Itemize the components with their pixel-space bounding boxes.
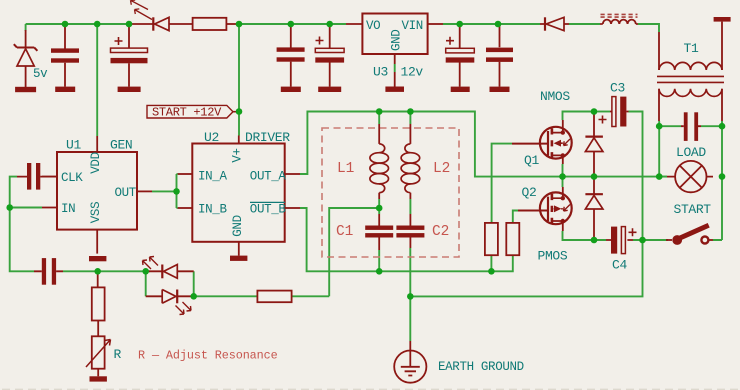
wire: zener top stub xyxy=(25,24,27,31)
lamp LOAD xyxy=(667,161,713,192)
wire: left gate resistor bottom stub xyxy=(490,255,492,271)
wire: U2 OUT_A riser, tank top rail, drop to mid rail xyxy=(300,112,667,177)
wire: C3 right down to earth rail xyxy=(410,112,642,297)
node mid rail / secondary drop xyxy=(656,173,663,180)
node 12v rail / bulk cap xyxy=(326,21,333,28)
value 5v xyxy=(33,67,48,81)
node earth ground tap xyxy=(407,293,414,300)
reference C4 xyxy=(612,258,627,273)
wire: diode to filter inductor xyxy=(569,23,600,25)
pin GND (U2) xyxy=(231,215,245,255)
label NMOS xyxy=(540,89,570,104)
svg-text:VDD: VDD xyxy=(89,152,103,173)
resistor R2 (divider top) xyxy=(92,273,105,336)
capacitor C1 (tank) xyxy=(365,214,393,250)
ground (zener) xyxy=(15,87,36,92)
pin CLK (U1) xyxy=(42,171,83,185)
node lamp right / right vertical xyxy=(719,173,726,180)
svg-text:12v: 12v xyxy=(401,65,424,80)
wire: bottom cap to LED pair xyxy=(63,270,150,272)
pin VDD (U1) xyxy=(89,136,103,174)
capacitor (12v rail filter) xyxy=(277,24,305,87)
label C2 xyxy=(432,224,449,240)
svg-text:START +12V: START +12V xyxy=(152,106,222,120)
wire: C3 node to left plate xyxy=(594,111,610,113)
inductor L2 xyxy=(401,124,420,199)
wire: Q1 drain jog to C3 node xyxy=(563,112,595,121)
decorative bottom edge artifact xyxy=(2,388,740,390)
node U1 OUT split xyxy=(173,188,180,195)
zener diode D5 5v xyxy=(14,30,38,87)
svg-text:C2: C2 xyxy=(432,224,449,240)
earth ground symbol xyxy=(394,341,426,383)
value 12v xyxy=(401,65,424,80)
node: primary open terminal bar xyxy=(714,17,731,22)
node U1 IN tap xyxy=(6,204,13,211)
ground (U3) xyxy=(385,72,404,92)
pin VSS (U1) xyxy=(89,202,103,254)
svg-text:Q2: Q2 xyxy=(522,185,537,200)
svg-text:GND: GND xyxy=(390,30,404,51)
wire: U1 OUT to U2 inputs xyxy=(152,174,178,208)
reference U3 xyxy=(373,65,388,80)
node VIN rail / bulk cap xyxy=(456,21,463,28)
wire: Q2 source to C4 xyxy=(563,231,607,240)
capacitor (secondary resonant) xyxy=(681,112,701,141)
node 12v rail / filter cap xyxy=(288,21,295,28)
node Q2 source / D7 / C4 xyxy=(591,237,598,244)
capacitor (CLK coupling) C5 xyxy=(17,163,57,190)
wire: left column CLK cap to bottom cap xyxy=(10,177,34,272)
svg-text:START: START xyxy=(674,202,712,217)
reference Q1 xyxy=(524,153,539,168)
LED D3 (feedback pair lower, anode left) xyxy=(146,290,194,315)
node START+12V label tap xyxy=(236,108,243,115)
ground (12v filter cap) xyxy=(281,87,301,92)
pin OUT_A (U2) xyxy=(250,170,300,184)
wire: C2 bottom to earth ground xyxy=(409,248,411,341)
node gate rail / C1 bottom xyxy=(376,268,383,275)
text R - Adjust Resonance xyxy=(138,348,278,362)
svg-text:OUT_A: OUT_A xyxy=(250,170,287,184)
wire: secondary cap right xyxy=(701,125,722,127)
wire: U3 VIN to diode xyxy=(443,23,540,25)
wire: U1 IN wire xyxy=(10,207,42,209)
label C1 xyxy=(336,224,353,240)
driver IC U2 DRIVER box xyxy=(192,144,284,242)
pin OUT_B (U2, active low overline) xyxy=(250,202,300,216)
pin VIN (U3) xyxy=(402,19,444,33)
node 12v rail / START riser xyxy=(236,21,243,28)
polarized capacitor (VIN bulk) xyxy=(446,24,475,87)
svg-text:U1: U1 xyxy=(66,138,81,153)
wire: 5v rail top-left xyxy=(26,23,131,25)
capacitor (VIN filter) xyxy=(486,24,513,87)
svg-text:EARTH GROUND: EARTH GROUND xyxy=(438,360,524,374)
node LED pair left xyxy=(142,268,149,275)
svg-text:VO: VO xyxy=(366,19,380,33)
wire: secondary cap left xyxy=(659,125,681,127)
node C4 right / earth vertical xyxy=(639,237,646,244)
svg-text:IN_B: IN_B xyxy=(198,203,227,217)
svg-text:V+: V+ xyxy=(231,148,245,162)
diode D6 (across Q1) xyxy=(585,113,603,174)
pin IN (U1) xyxy=(42,202,75,216)
wire: feedback tap to L1/C1 node xyxy=(329,208,379,296)
wire: U3 GND stub xyxy=(394,64,396,72)
svg-text:VSS: VSS xyxy=(89,202,103,223)
reference Q2 xyxy=(522,185,537,200)
pin IN_B (U2) xyxy=(178,203,228,217)
label L2 xyxy=(433,161,450,177)
wire: LED pair left leg xyxy=(145,271,147,296)
wire: Q1 source stub xyxy=(562,164,564,177)
LED D1 power indicator xyxy=(131,0,193,31)
svg-text:C1: C1 xyxy=(336,224,353,240)
svg-text:OUT_B: OUT_B xyxy=(250,203,287,217)
wire: C1 bottom stub xyxy=(378,250,380,271)
svg-text:R — Adjust Resonance: R — Adjust Resonance xyxy=(138,348,278,362)
node 5v rail / VDD xyxy=(94,21,101,28)
wire: U2 V+ riser with START+12V tap xyxy=(238,24,240,136)
node tank rail / L2 xyxy=(407,108,414,115)
resistor R1 (LED series) xyxy=(193,18,236,30)
regulator U3 box xyxy=(362,14,427,55)
inductor FB1 (input filter, ferrite core) xyxy=(600,14,638,24)
svg-text:C4: C4 xyxy=(612,258,627,273)
pin GND (U3) xyxy=(390,30,404,64)
svg-text:DRIVER: DRIVER xyxy=(245,130,290,145)
resistor R variable (adjust resonance) xyxy=(86,336,111,376)
switch SW1 START xyxy=(666,225,713,245)
resistor R5 (Q2 gate) xyxy=(506,223,519,255)
ground (U1 VSS) xyxy=(89,256,106,261)
pin VO (U3) xyxy=(346,19,380,33)
resistor R3 (feedback series) xyxy=(257,291,291,303)
svg-text:Q1: Q1 xyxy=(524,153,539,168)
svg-text:PMOS: PMOS xyxy=(538,249,568,264)
wire: L1 to C1 link xyxy=(378,199,380,214)
ground (VIN bulk cap) xyxy=(451,87,470,92)
ground (U2 GND) xyxy=(230,256,247,261)
wire: L1 top stub xyxy=(378,112,380,125)
node L1/C1 junction xyxy=(376,205,383,212)
capacitor (IN feedback) C6 xyxy=(34,258,63,285)
node mid rail / Q1 source xyxy=(559,173,566,180)
svg-text:OUT: OUT xyxy=(115,186,137,200)
ground (variable resistor) xyxy=(90,376,107,381)
wire: C4 right to switch xyxy=(633,239,668,241)
wire: right vertical T1 secondary to switch xyxy=(713,121,722,240)
transistor Q1 NMOS xyxy=(512,120,572,164)
svg-text:T1: T1 xyxy=(684,41,699,56)
svg-text:GND: GND xyxy=(231,215,245,236)
reference C3 xyxy=(610,81,625,96)
svg-text:CLK: CLK xyxy=(61,171,83,185)
label START xyxy=(674,202,712,217)
global label START +12V xyxy=(147,105,239,119)
svg-text:L2: L2 xyxy=(433,161,450,177)
node tank rail / L1 xyxy=(376,108,383,115)
wire: L2 top stub xyxy=(409,112,411,125)
node Q1 drain / C3 / D6 xyxy=(591,108,598,115)
svg-text:NMOS: NMOS xyxy=(540,89,570,104)
inductor L1 xyxy=(370,124,389,199)
node VIN rail / filter cap xyxy=(495,21,502,28)
polarized capacitor C3 xyxy=(599,97,629,127)
node gate rail / R4 bottom xyxy=(488,268,495,275)
ground (5v bulk cap) xyxy=(118,87,141,92)
polarized capacitor (12v bulk) xyxy=(315,24,344,87)
label LOAD xyxy=(676,145,706,160)
wire: Q1 gate wire and R riser xyxy=(492,144,512,223)
wire: Q2 gate wire and R riser xyxy=(513,211,518,223)
wire: inductor to T1 primary xyxy=(638,24,659,32)
node 5v rail / bulk cap xyxy=(126,21,133,28)
wire: L2 to C2 link xyxy=(409,199,411,214)
reference R (variable resistor) xyxy=(114,347,122,362)
label EARTH GROUND xyxy=(438,360,524,374)
reference U2 xyxy=(204,130,219,145)
svg-text:GEN: GEN xyxy=(110,138,132,153)
ground (VIN filter cap) xyxy=(490,87,510,92)
svg-text:IN_A: IN_A xyxy=(198,170,227,184)
wire: LED pair right leg xyxy=(193,271,195,296)
svg-text:LOAD: LOAD xyxy=(676,145,706,160)
wire: feedback resistor to tap riser xyxy=(292,295,330,297)
label L1 xyxy=(337,161,354,177)
polarized capacitor (5v bulk) xyxy=(111,24,148,87)
node secondary left / cap xyxy=(656,123,663,130)
op-amp U1 GEN oscillator box xyxy=(57,152,137,230)
svg-text:U3: U3 xyxy=(373,65,388,80)
transformer T1 xyxy=(657,22,724,121)
ground (12v bulk cap) xyxy=(318,87,341,92)
wire: U2 OUT_B drop and bottom gate rail xyxy=(300,208,513,271)
diode D7 (across Q2) xyxy=(585,179,603,238)
capacitor (5v rail filter) xyxy=(51,24,79,87)
wire: lamp left stub xyxy=(659,176,667,178)
wire: secondary left terminal drop xyxy=(658,121,660,177)
wire: +12v rail to U3 VO xyxy=(236,23,346,25)
resistor R4 (Q1 gate) xyxy=(485,223,498,255)
svg-text:U2: U2 xyxy=(204,130,219,145)
diode D4 (input series) xyxy=(540,17,569,30)
node LED pair right xyxy=(190,293,197,300)
value GEN xyxy=(110,138,132,153)
pin V+ (U2) xyxy=(231,136,245,163)
svg-text:R: R xyxy=(114,347,122,362)
svg-text:IN: IN xyxy=(61,202,75,216)
wire: LED pair to feedback resistor xyxy=(194,295,258,297)
value DRIVER xyxy=(245,130,290,145)
wire: U1 VDD riser xyxy=(96,24,98,136)
ground (5v filter cap) xyxy=(55,87,75,92)
pin IN_A (U2) xyxy=(178,170,228,184)
LED D2 (feedback pair upper, cathode left) xyxy=(143,257,194,279)
wire: Q2 drain stub xyxy=(562,177,564,187)
transistor Q2 PMOS xyxy=(518,187,572,231)
node 5v rail / filter cap xyxy=(62,21,69,28)
label PMOS xyxy=(538,249,568,264)
node mid rail / diode midpoint xyxy=(591,173,598,180)
pin OUT (U1) xyxy=(115,186,153,200)
reference T1 xyxy=(684,41,699,56)
reference U1 xyxy=(66,138,81,153)
svg-text:L1: L1 xyxy=(337,161,354,177)
node divider / LED tap xyxy=(94,268,101,275)
capacitor C2 (tank) xyxy=(396,214,424,248)
node secondary right / cap xyxy=(719,123,726,130)
tank circuit dashed boundary box xyxy=(322,128,459,257)
svg-text:C3: C3 xyxy=(610,81,625,96)
svg-text:VIN: VIN xyxy=(402,19,423,33)
svg-text:5v: 5v xyxy=(33,67,48,81)
polarized capacitor C4 xyxy=(606,227,637,254)
